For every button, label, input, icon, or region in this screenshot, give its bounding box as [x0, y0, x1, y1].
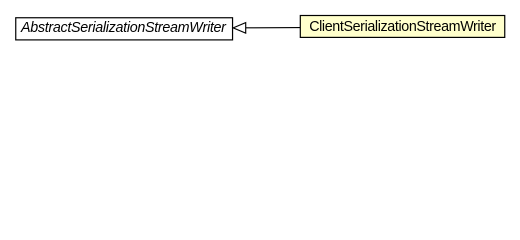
- wire: inheritance edge shaft from subclass box to hollow arrowhead: [245, 27, 300, 29]
- class box ClientSerializationStreamWriter (highlighted current class, pale yellow fill): [300, 16, 504, 38]
- UML generalization diagram: [0, 0, 520, 59]
- label: AbstractSerializationStreamWriter (italic = abstract): [15, 17, 233, 40]
- class box AbstractSerializationStreamWriter (abstract superclass, white fill): [16, 18, 233, 40]
- arrowhead: hollow generalization triangle pointing at superclass: [233, 23, 246, 33]
- label: ClientSerializationStreamWriter: [300, 15, 505, 38]
